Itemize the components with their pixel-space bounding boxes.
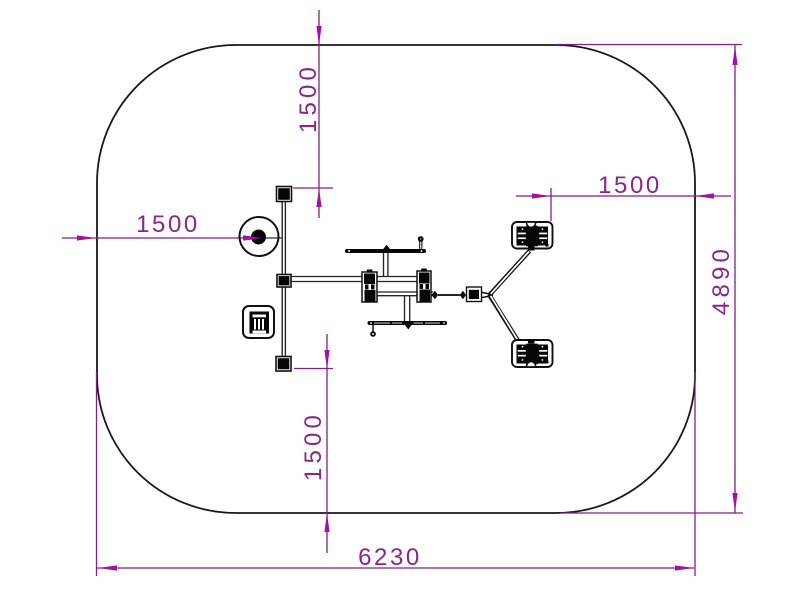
dimension D4 arrows	[732, 46, 737, 512]
dimension D2: left horizontal 1500	[62, 237, 261, 239]
dimension D3: top right horizontal 1500	[516, 188, 731, 221]
safety zone outline	[97, 45, 695, 513]
rocker top	[512, 222, 553, 251]
dimension D5: bottom horizontal 6230	[97, 372, 696, 576]
swing seat blob	[251, 230, 266, 245]
post top	[277, 187, 292, 202]
link diamond 2	[460, 291, 466, 299]
dimension D5 arrows	[98, 565, 694, 570]
rail from wall to frame (double line)	[291, 277, 417, 282]
svg-text:4890: 4890	[708, 245, 735, 315]
rocker bottom	[512, 339, 553, 367]
branch upper (double line)	[489, 251, 530, 296]
wall upper segment (double line)	[282, 201, 285, 275]
top bar centre knob	[383, 245, 390, 253]
bottom bar centre knob	[405, 321, 412, 329]
post middle	[277, 275, 291, 288]
post bottom	[276, 357, 291, 372]
dimension D1: top vertical 1500	[293, 10, 333, 218]
top bar	[345, 249, 426, 253]
dimension D6: bottom middle vertical 1500	[294, 334, 333, 553]
link bar	[438, 294, 460, 296]
svg-text:1500: 1500	[136, 211, 200, 238]
svg-text:1500: 1500	[300, 411, 327, 481]
frame right post	[417, 269, 431, 303]
svg-text:1500: 1500	[295, 63, 322, 133]
swing ring	[240, 217, 279, 256]
dimension D6 arrows	[324, 350, 329, 532]
play panel	[243, 306, 274, 338]
dimension D1 arrows	[316, 26, 321, 207]
wall lower segment (double line)	[282, 286, 285, 357]
bottom bar stem (double line)	[405, 296, 410, 322]
svg-text:6230: 6230	[358, 544, 422, 571]
svg-text:1500: 1500	[598, 172, 662, 199]
dimension D3 arrows	[532, 193, 714, 198]
dimension D2 arrow over blob	[243, 235, 262, 240]
dimension D2 leader to wall	[262, 237, 282, 239]
top bar stem (double line)	[384, 253, 388, 277]
bottom bar left handle	[370, 325, 376, 337]
branch lower (double line)	[489, 295, 530, 360]
link node	[467, 287, 482, 302]
dimension D2 arrows	[77, 235, 262, 240]
bottom bar	[368, 321, 448, 325]
frame left post	[362, 270, 377, 303]
dimension D4: right vertical 4890	[556, 45, 743, 514]
frame bottom rail (double line)	[377, 292, 433, 296]
top bar right handle	[418, 236, 424, 249]
link diamond 1	[432, 291, 439, 299]
fork stub	[482, 292, 494, 294]
